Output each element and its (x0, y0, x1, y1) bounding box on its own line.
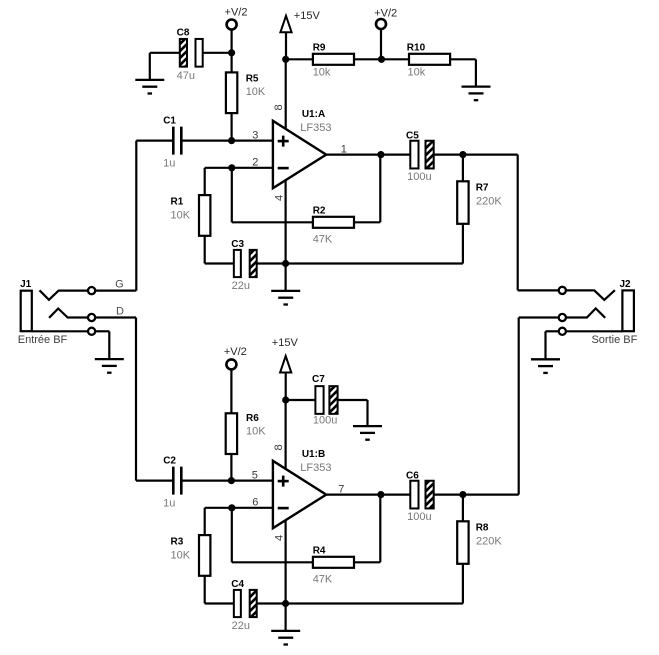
svg-text:220K: 220K (476, 535, 502, 547)
ground (U1:B) (271, 631, 300, 645)
resistor R9 (286, 42, 382, 78)
svg-text:R2: R2 (313, 206, 326, 217)
pin 8 wire B (285, 400, 287, 470)
label Sortie BF (591, 334, 637, 346)
J2 tip contact (559, 287, 566, 294)
wire J1 ring line D (96, 316, 136, 318)
pin 8 label A (273, 104, 285, 110)
ground (C7) (353, 426, 382, 440)
svg-text:C2: C2 (163, 456, 176, 467)
svg-text:7: 7 (338, 483, 344, 495)
svg-text:R3: R3 (171, 537, 184, 548)
J2 tip contact arm (566, 290, 615, 300)
terminal +V/2 (divider tap) (374, 8, 397, 60)
wire J1 ring to C2 (135, 318, 137, 481)
node C6/R8 (459, 491, 466, 498)
capacitor C3 (231, 239, 463, 292)
node divider tap (378, 56, 385, 63)
wire output B (326, 494, 410, 496)
svg-text:10k: 10k (313, 66, 331, 78)
resistor R5 (226, 53, 266, 141)
svg-text:U1:A: U1:A (302, 109, 325, 120)
wire C1 to J1 tip (135, 141, 137, 291)
svg-text:R7: R7 (476, 182, 489, 193)
J2 ring contact (559, 314, 566, 321)
ground (J1) (95, 359, 124, 373)
svg-text:Entrée BF: Entrée BF (18, 334, 68, 346)
wire C8 to ground (149, 53, 151, 80)
svg-text:100u: 100u (407, 511, 431, 523)
svg-text:R4: R4 (313, 546, 326, 557)
pin 1 label (341, 143, 347, 155)
svg-text:47u: 47u (177, 70, 195, 82)
svg-text:3: 3 (252, 129, 258, 141)
svg-text:+15V: +15V (294, 10, 321, 22)
svg-text:+V/2: +V/2 (224, 346, 247, 358)
svg-text:C8: C8 (177, 27, 190, 38)
capacitor C2 (136, 456, 273, 510)
svg-text:LF353: LF353 (300, 122, 331, 134)
pin 4 label A (273, 195, 285, 201)
power +15V (A) (280, 10, 320, 59)
J2 ring contact arm (566, 308, 605, 317)
resistor R7 (457, 155, 502, 264)
connector J1 body (20, 279, 32, 331)
wire pin 6 (205, 508, 273, 535)
op-amp U1:A (273, 109, 332, 188)
svg-text:+V/2: +V/2 (225, 7, 248, 19)
svg-text:R10: R10 (407, 42, 426, 53)
J1 sleeve wire (32, 330, 87, 332)
svg-text:22u: 22u (232, 280, 250, 292)
pin 3 label (252, 129, 258, 141)
capacitor C6 (406, 470, 519, 522)
wire J2 sleeve to ground (546, 331, 559, 359)
wire J1 sleeve to ground (96, 331, 110, 359)
node output B (377, 491, 384, 498)
svg-text:C5: C5 (406, 130, 419, 141)
svg-text:R1: R1 (171, 197, 184, 208)
node label D (116, 305, 124, 317)
svg-text:10K: 10K (246, 425, 266, 437)
svg-text:100u: 100u (313, 414, 337, 426)
node pin 3 A (228, 137, 235, 144)
svg-text:+V/2: +V/2 (374, 8, 397, 20)
svg-text:4: 4 (273, 535, 285, 541)
svg-text:1u: 1u (163, 497, 175, 509)
pin 2 label (252, 157, 258, 169)
connector J2 body (619, 279, 633, 331)
resistor R8 (457, 495, 502, 604)
node C5/R7 (459, 151, 466, 158)
svg-text:LF353: LF353 (300, 462, 331, 474)
capacitor C1 (136, 116, 273, 170)
svg-text:10K: 10K (171, 550, 191, 562)
svg-text:R8: R8 (476, 522, 489, 533)
capacitor C8 (150, 27, 232, 82)
svg-text:R9: R9 (313, 42, 326, 53)
svg-text:J2: J2 (619, 279, 631, 290)
svg-text:5: 5 (252, 469, 258, 481)
svg-text:10K: 10K (246, 86, 266, 98)
node pin8 B / C7 (282, 396, 289, 403)
svg-text:C6: C6 (406, 470, 419, 481)
svg-text:R5: R5 (246, 74, 259, 85)
svg-text:8: 8 (273, 104, 285, 110)
node pin 2 A (228, 164, 235, 171)
svg-text:47K: 47K (313, 234, 333, 246)
terminal +V/2 (channel B) (224, 346, 247, 413)
resistor R6 (226, 413, 267, 481)
svg-text:8: 8 (273, 444, 285, 450)
svg-text:220K: 220K (476, 195, 502, 207)
pin 5 label (252, 469, 258, 481)
resistor R3 (171, 535, 234, 603)
wire output A (326, 154, 410, 156)
svg-text:C4: C4 (231, 579, 244, 590)
svg-text:47K: 47K (313, 574, 333, 586)
node +V/2 A (228, 49, 235, 56)
pin 8 label B (273, 444, 285, 450)
node label G (115, 279, 124, 291)
J2 sleeve wire (566, 330, 622, 332)
pin 4 wire A (285, 180, 287, 264)
svg-text:U1:B: U1:B (302, 449, 325, 460)
svg-text:6: 6 (252, 497, 258, 509)
node pin 5 (228, 477, 235, 484)
node ground B (282, 600, 289, 607)
J1 tip contact (88, 287, 95, 294)
node pin8 A / R9 (282, 56, 289, 63)
J1 ring contact arm (49, 309, 87, 318)
node output A (377, 151, 384, 158)
capacitor C5 (406, 130, 518, 182)
pin 4 label B (273, 535, 285, 541)
resistor R4 (232, 495, 380, 586)
ground (J2) (531, 359, 560, 373)
pin 7 label (338, 483, 344, 495)
svg-text:D: D (116, 305, 124, 317)
svg-text:4: 4 (273, 195, 285, 201)
terminal +V/2 (rail splitter input) (225, 7, 248, 53)
ground (U1:A) (271, 291, 300, 305)
svg-text:1: 1 (341, 143, 347, 155)
J1 ring contact (88, 314, 95, 321)
J2 sleeve contact (559, 328, 566, 335)
svg-text:G: G (115, 279, 124, 291)
J1 sleeve contact (88, 328, 95, 335)
label Entree BF (18, 334, 68, 346)
ground (R10) (462, 87, 491, 101)
svg-text:2: 2 (252, 157, 258, 169)
svg-text:J1: J1 (20, 279, 32, 290)
capacitor C7 (286, 374, 368, 426)
wire R10 to ground (475, 59, 477, 86)
resistor R2 (232, 155, 380, 246)
resistor R10 (382, 42, 476, 78)
svg-text:100u: 100u (407, 171, 431, 183)
svg-text:10k: 10k (408, 66, 426, 78)
resistor R1 (171, 195, 234, 263)
svg-text:22u: 22u (232, 620, 250, 632)
ground (C8) (135, 80, 164, 94)
svg-text:R6: R6 (246, 413, 259, 424)
J1 tip contact arm (40, 290, 88, 300)
pin 4 wire B (285, 520, 287, 604)
pin 6 label (252, 497, 258, 509)
capacitor C4 (231, 579, 463, 632)
wire output B to J2 ring (519, 318, 559, 495)
svg-text:C3: C3 (231, 239, 244, 250)
wire J1 tip line G (96, 290, 137, 292)
svg-text:C1: C1 (163, 116, 176, 127)
op-amp U1:B (273, 449, 332, 528)
node ground A (282, 260, 289, 267)
svg-text:C7: C7 (312, 374, 325, 385)
wire output A to J2 tip (518, 155, 559, 291)
pin 8 wire A (285, 59, 287, 129)
wire ground stem B (285, 604, 287, 631)
power +15V (B) (272, 337, 299, 400)
svg-text:Sortie BF: Sortie BF (591, 334, 637, 346)
svg-text:1u: 1u (163, 157, 175, 169)
wire ground stem A (285, 264, 287, 291)
node pin 6 (228, 504, 235, 511)
wire C7 to ground (366, 400, 368, 426)
svg-text:10K: 10K (171, 210, 191, 222)
wire pin 2 A (205, 168, 273, 195)
svg-text:+15V: +15V (272, 337, 299, 349)
